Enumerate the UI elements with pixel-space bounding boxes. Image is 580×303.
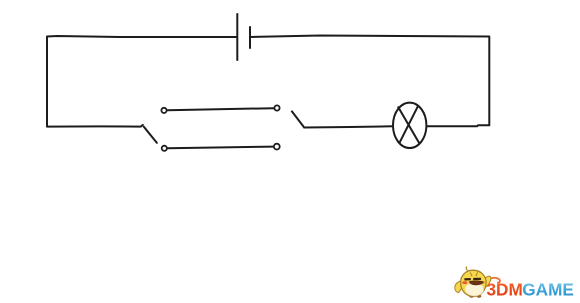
chick mascot xyxy=(455,267,491,298)
svg-text:GAME: GAME xyxy=(522,280,574,300)
eyes xyxy=(464,278,470,280)
wire top row xyxy=(167,108,274,110)
left wing xyxy=(455,281,464,293)
node B (top-right contact) xyxy=(274,105,279,110)
swoosh xyxy=(487,278,500,284)
body xyxy=(461,270,487,296)
wire right vertical xyxy=(488,37,490,126)
wire top-left xyxy=(47,36,237,37)
wire bottom-left xyxy=(47,125,143,127)
3DMGAME watermark logo xyxy=(455,267,574,300)
node A (top-left contact) xyxy=(161,108,166,113)
lamp L1 xyxy=(393,103,426,148)
eyebrows xyxy=(470,273,472,277)
feet xyxy=(469,295,474,298)
switch S2 blade xyxy=(292,111,304,127)
right wing xyxy=(484,276,491,288)
wire lamp to corner xyxy=(426,125,489,126)
wire top-right xyxy=(250,36,489,38)
belly xyxy=(465,283,484,296)
wire bottom row xyxy=(167,147,273,149)
hair tuft xyxy=(466,267,467,271)
blush xyxy=(462,281,467,284)
wire switch to lamp xyxy=(304,126,393,127)
node C (bottom-left contact) xyxy=(162,146,167,151)
wire left vertical xyxy=(46,37,48,126)
node D (bottom-right contact) xyxy=(274,144,280,150)
mouth xyxy=(469,281,483,285)
switch S1 blade xyxy=(144,127,157,143)
svg-text:3DM: 3DM xyxy=(487,280,523,300)
battery BT1 xyxy=(237,14,250,60)
